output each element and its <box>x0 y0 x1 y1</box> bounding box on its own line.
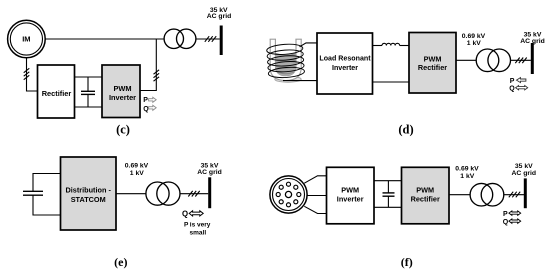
note P is very small <box>184 222 211 237</box>
svg-text:Q: Q <box>503 219 509 226</box>
svg-text:PWM: PWM <box>416 186 434 195</box>
wire rectifier to transformer (f) <box>449 194 470 196</box>
svg-text:1 kV: 1 kV <box>467 40 481 47</box>
label 35 kV AC grid (d) <box>520 32 545 46</box>
grid bus (d) <box>531 43 534 74</box>
svg-text:P: P <box>503 211 508 218</box>
induction heating work coil <box>266 43 304 79</box>
machine phase lead bottom <box>304 206 326 213</box>
svg-text:PWM: PWM <box>424 54 442 63</box>
P label and arrow (c) <box>143 97 156 104</box>
wire IM to transformer <box>45 38 164 40</box>
impedance slashes on branch <box>154 70 160 81</box>
PWM rectifier box (d) <box>409 33 456 94</box>
svg-text:1 kV: 1 kV <box>460 173 474 180</box>
resonant inductor <box>382 43 400 45</box>
rectifier box <box>38 65 75 118</box>
transformer T1 <box>164 29 196 48</box>
svg-text:(c): (c) <box>116 122 130 136</box>
svg-text:STATCOM: STATCOM <box>71 195 106 204</box>
svg-text:IM: IM <box>22 35 30 44</box>
svg-text:AC grid: AC grid <box>512 170 537 177</box>
svg-text:AC grid: AC grid <box>197 169 222 176</box>
svg-text:Load Resonant: Load Resonant <box>319 55 371 63</box>
wire branch from top wire to PWM inverter <box>140 39 156 91</box>
grid bus (f) <box>524 178 527 208</box>
svg-text:Distribution -: Distribution - <box>65 185 111 194</box>
svg-text:AC grid: AC grid <box>207 13 232 20</box>
Q label and double arrow (d) <box>509 86 527 93</box>
svg-text:(e): (e) <box>114 255 127 269</box>
machine phase lead middle <box>307 195 327 197</box>
impedance slashes IM lead <box>24 68 30 79</box>
label 35 kV AC grid (c) <box>207 7 232 20</box>
label 0.69 kV 1 kV (e) <box>125 162 149 177</box>
svg-text:Rectifier: Rectifier <box>42 89 72 98</box>
svg-text:0.69 kV: 0.69 kV <box>125 162 149 169</box>
label 35 kV AC grid (f) <box>512 163 537 177</box>
DC link capacitor (f) <box>383 181 395 208</box>
transformer T2 <box>476 49 510 72</box>
svg-text:Q: Q <box>509 86 515 93</box>
svg-text:PWM: PWM <box>341 186 359 195</box>
STATCOM capacitor branch <box>23 174 61 216</box>
svg-text:PWM: PWM <box>113 84 131 93</box>
P label and left arrow (d) <box>510 78 526 85</box>
wire transformer to grid bus (f) <box>504 194 524 196</box>
bottom wire inverter to PWM rectifier <box>373 81 410 83</box>
induction heating crucible <box>270 39 302 80</box>
grid bus (c) <box>220 26 223 56</box>
transformer T3 <box>146 182 180 205</box>
label 0.69 kV 1 kV (d) <box>462 33 486 47</box>
DC link wire top (f) <box>374 180 402 182</box>
PWM inverter box (f) <box>327 167 375 224</box>
PM machine <box>270 176 307 213</box>
DC link wire bottom (f) <box>374 206 402 208</box>
svg-text:0.69 kV: 0.69 kV <box>455 166 479 173</box>
svg-text:P: P <box>143 97 148 104</box>
svg-text:Inverter: Inverter <box>337 194 364 203</box>
induction heating crucible base dish <box>275 76 301 82</box>
label 35 kV AC grid (e) <box>197 162 222 176</box>
svg-text:(d): (d) <box>398 122 413 136</box>
distribution STATCOM box <box>61 157 117 230</box>
PWM rectifier box (f) <box>402 167 450 224</box>
grid bus (e) <box>208 177 211 208</box>
Q label and double arrow (e) <box>182 210 203 219</box>
coil bottom lead <box>283 80 317 82</box>
svg-text:1 kV: 1 kV <box>130 170 144 177</box>
svg-text:(f): (f) <box>401 255 413 269</box>
svg-text:P: P <box>510 78 515 85</box>
line-impedance slashes (e) <box>188 191 199 197</box>
DC link wire top (c) <box>75 76 103 78</box>
PWM inverter box (c) <box>102 65 140 118</box>
wire STATCOM to transformer <box>116 193 146 195</box>
transformer T4 <box>470 183 504 206</box>
PM machine rotor holes <box>276 182 301 207</box>
Q label and double arrow (f) <box>503 219 521 226</box>
wire transformer to grid bus (d) <box>511 59 531 61</box>
wire inverter to inductor <box>373 45 383 47</box>
line-impedance slashes (c) <box>205 36 216 42</box>
label 0.69 kV 1 kV (f) <box>455 166 479 180</box>
line-impedance slashes (d) <box>515 58 526 64</box>
svg-text:small: small <box>190 230 207 237</box>
wire transformer to grid bus (e) <box>180 193 208 195</box>
wire IM to rectifier <box>27 57 38 91</box>
load resonant inverter box <box>317 33 373 94</box>
svg-text:Q: Q <box>182 210 188 219</box>
induction machine IM <box>8 20 46 58</box>
svg-text:0.69 kV: 0.69 kV <box>462 33 486 40</box>
DC link wire bottom (c) <box>75 106 103 108</box>
svg-text:Rectifier: Rectifier <box>418 63 447 72</box>
svg-text:Rectifier: Rectifier <box>411 194 440 203</box>
wire transformer to grid bus <box>196 38 220 40</box>
svg-text:is very: is very <box>190 222 211 229</box>
wire rectifier to transformer (d) <box>456 59 476 61</box>
coil top lead <box>300 43 318 47</box>
svg-text:P: P <box>184 222 189 229</box>
Q label and arrow (c) <box>143 105 156 113</box>
svg-text:Inverter: Inverter <box>332 64 358 72</box>
machine phase lead top <box>304 176 326 183</box>
wire inductor to PWM rectifier <box>400 45 409 47</box>
svg-text:Inverter: Inverter <box>109 93 136 102</box>
P label and double arrow (f) <box>503 211 521 218</box>
line-impedance slashes (f) <box>509 192 520 198</box>
svg-text:AC grid: AC grid <box>520 38 545 45</box>
DC link capacitor (c) <box>81 77 95 107</box>
